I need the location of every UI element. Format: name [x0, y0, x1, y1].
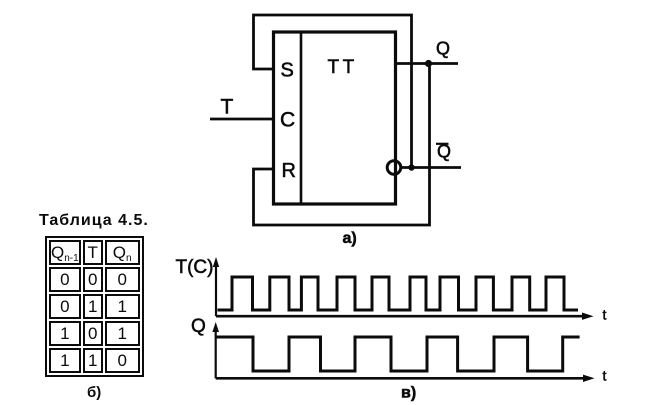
svg-text:Q: Q: [436, 39, 450, 59]
svg-text:T(C): T(C): [176, 257, 214, 278]
wire S feedback loop (Q-bar to S): [254, 15, 412, 168]
arrowhead X axis T(C): [582, 313, 594, 320]
input section divider: [300, 32, 303, 204]
junction dot on Q-bar wire (node Q-bar): [408, 164, 414, 170]
svg-text:TT: TT: [328, 57, 358, 78]
wire T input: [210, 118, 274, 121]
wire Q-bar output: [401, 166, 462, 169]
axis Y of T(C) timing diagram: [215, 261, 217, 316]
flip-flop box U1: [274, 32, 396, 204]
svg-text:C: C: [280, 109, 295, 132]
caption b): [87, 384, 101, 401]
svg-text:S: S: [281, 60, 294, 82]
svg-text:t: t: [603, 307, 607, 323]
junction dot on Q output wire (node Q): [425, 60, 432, 67]
axis X (t) of T(C) diagram: [216, 315, 589, 318]
svg-text:t: t: [603, 368, 607, 384]
svg-text:а): а): [343, 230, 357, 247]
svg-text:в): в): [401, 385, 416, 402]
waveform Q square wave: [216, 337, 580, 371]
overline of Q-bar label: [436, 143, 449, 145]
svg-text:Q: Q: [191, 316, 206, 337]
svg-text:T: T: [221, 96, 234, 119]
arrowhead X axis Q: [583, 375, 595, 382]
inverter bubble on Q-bar output: [387, 161, 401, 175]
arrowhead Y axis T(C): [213, 257, 219, 267]
caption: table title: [39, 212, 149, 230]
svg-text:R: R: [282, 160, 296, 182]
arrowhead Y axis Q: [212, 322, 219, 332]
axis X (t) of Q diagram: [216, 377, 590, 380]
wire Q output: [396, 62, 459, 65]
axis Y of Q timing diagram: [215, 326, 217, 378]
waveform T(C) square wave: [218, 277, 579, 310]
wire R feedback loop (Q to R): [254, 64, 430, 226]
truth table of T flip-flop: [45, 236, 144, 377]
